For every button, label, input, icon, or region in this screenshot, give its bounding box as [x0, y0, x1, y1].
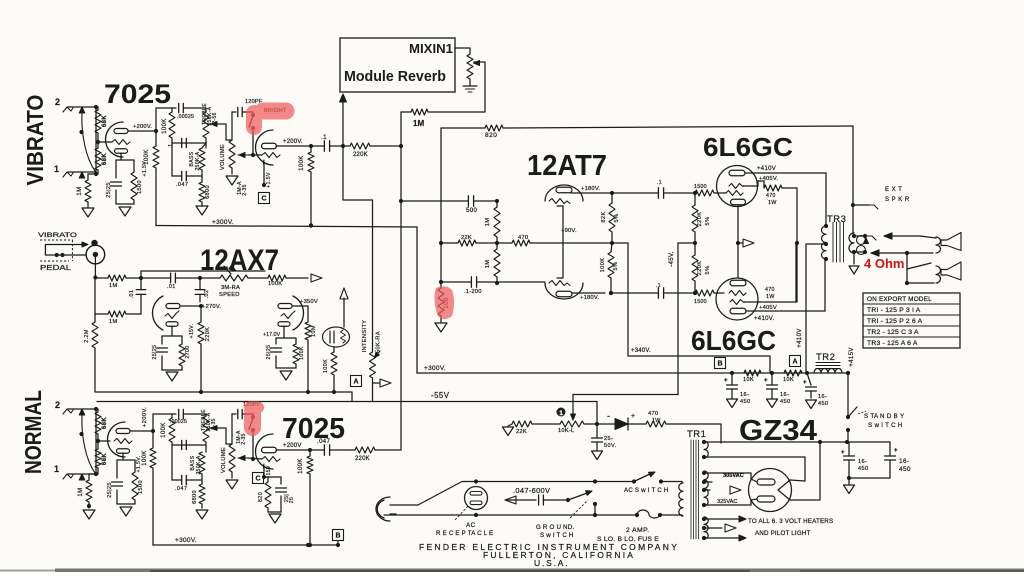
tremolo bug optocoupler	[323, 327, 350, 347]
shield curve normal inputs	[82, 415, 95, 473]
heater arrows 6.3V	[704, 518, 740, 520]
svg-text:ON EXPORT MODEL: ON EXPORT MODEL	[867, 296, 932, 303]
wire lower PI grid row	[441, 281, 467, 283]
svg-text:+300V.: +300V.	[175, 537, 197, 544]
svg-text:A: A	[353, 379, 358, 386]
svg-text:820: 820	[258, 492, 264, 502]
svg-text:100K: 100K	[144, 149, 150, 165]
svg-text:U.S.A.: U.S.A.	[534, 558, 569, 568]
wire HV bottom to plate2	[704, 499, 757, 505]
svg-text:.047-600V: .047-600V	[513, 486, 550, 495]
ground switch callout	[570, 500, 588, 518]
resistor 100K slope normal	[169, 418, 175, 442]
mid node normal	[172, 444, 192, 446]
svg-text:TRI - 125 P 2 6 A: TRI - 125 P 2 6 A	[867, 318, 923, 325]
svg-text:.047: .047	[176, 182, 188, 188]
scan artifact bottom band	[55, 569, 1024, 573]
svg-text:+415V: +415V	[849, 347, 855, 367]
wire to tone stack top	[156, 107, 176, 109]
ground volume	[226, 176, 238, 185]
volume pot 1M-A vibrato	[229, 140, 235, 168]
svg-text:AC S w I T C H: AC S w I T C H	[624, 487, 669, 494]
resistor 220K 5% upper grid leak	[692, 205, 698, 232]
ground tone stack normal	[196, 510, 208, 519]
wire upper grid into tube	[724, 192, 726, 194]
resistor 220K tremolo plate	[198, 322, 204, 344]
svg-text:A: A	[792, 359, 797, 366]
svg-text:SPEED: SPEED	[219, 292, 240, 298]
svg-text:AC: AC	[466, 522, 476, 529]
svg-text:470: 470	[766, 193, 776, 199]
triode V1B 7025 vibrato second stage	[256, 130, 274, 165]
svg-text:100K: 100K	[162, 118, 168, 134]
wiper treble to volume	[210, 123, 226, 125]
svg-text:25: 25	[289, 497, 295, 504]
svg-text:450: 450	[858, 466, 869, 472]
svg-text:7025: 7025	[282, 413, 345, 445]
TR1 6.3V winding	[704, 517, 708, 539]
capacitor 16-450 at B	[727, 384, 738, 386]
ground 100 NFB	[435, 323, 447, 332]
resistor 100K slope	[169, 112, 175, 138]
boxed B designator normal	[333, 530, 344, 541]
svg-text:+180V.: +180V.	[580, 295, 599, 301]
svg-text:1M: 1M	[485, 218, 491, 227]
highlight bright switch normal	[244, 402, 264, 437]
triode 7025 normal second stage	[256, 434, 274, 469]
svg-text:1: 1	[54, 164, 59, 174]
svg-text:TR2 - 125 C 3 A: TR2 - 125 C 3 A	[867, 329, 919, 336]
svg-text:1M: 1M	[413, 119, 424, 128]
svg-text:+405V: +405V	[759, 305, 777, 311]
arrow intensity to A node	[373, 382, 380, 384]
wire filament bottom to B+	[790, 442, 820, 500]
plate B +350V	[292, 305, 300, 307]
svg-text:6800: 6800	[192, 490, 198, 504]
arrow bug to signal	[343, 298, 345, 327]
node plate V1A vertical	[155, 108, 157, 131]
resistor 6800 mid	[201, 176, 203, 182]
wire upper link	[141, 270, 265, 272]
svg-text:1500: 1500	[138, 480, 144, 494]
GZ34 plate 2	[757, 496, 775, 502]
capacitor 16-450 mid	[767, 384, 778, 386]
svg-text:16-: 16-	[818, 394, 827, 400]
svg-text:+300V.: +300V.	[212, 219, 234, 226]
resistor 220K 5% lower grid leak	[692, 255, 698, 281]
resistor 100 NFB highlighted	[440, 243, 442, 282]
svg-text:500: 500	[466, 207, 477, 214]
TR3 center tap +410V wire	[806, 243, 826, 245]
svg-text:AND PILOT LIGHT: AND PILOT LIGHT	[755, 530, 811, 537]
svg-text:+: +	[841, 450, 845, 456]
tone stack normal top wire	[153, 413, 176, 415]
wire NFB vertical to 820	[440, 128, 442, 243]
tube 6L6GC lower	[716, 278, 758, 320]
wire PI tail to +340V feed	[563, 242, 612, 244]
ground speaker jack	[853, 252, 855, 264]
svg-text:PEDAL: PEDAL	[40, 263, 71, 272]
svg-text:S w I T C H: S w I T C H	[540, 532, 574, 539]
svg-text:1M: 1M	[485, 260, 491, 269]
treble pot normal	[203, 416, 209, 442]
svg-text:5%: 5%	[613, 262, 619, 271]
resistor 68K grid stopper upper	[95, 110, 101, 133]
AC plug	[376, 497, 390, 521]
svg-text:.1: .1	[656, 283, 661, 289]
wire top rail NFB/ext speaker	[441, 127, 485, 129]
svg-text:305VAC: 305VAC	[723, 473, 744, 479]
svg-text:VOLUME: VOLUME	[220, 144, 226, 170]
svg-text:.1: .1	[168, 144, 174, 149]
svg-text:C: C	[255, 476, 260, 483]
svg-text:+90V.: +90V.	[561, 228, 577, 234]
pedal wire loop	[45, 245, 83, 256]
bass pot normal	[199, 452, 205, 474]
cathode network V1A 1500 + 25/25	[120, 153, 122, 160]
plate wire V1A to node	[128, 130, 156, 132]
svg-text:2: 2	[55, 97, 60, 107]
svg-text:4 Ohm: 4 Ohm	[864, 256, 904, 271]
triode 12AX7 B	[293, 296, 304, 330]
svg-text:1M: 1M	[109, 319, 118, 325]
ground switch lever	[568, 492, 590, 500]
wire input bus vibrato	[95, 107, 97, 174]
svg-text:+200V.: +200V.	[142, 407, 148, 427]
svg-text:S TA N D B Y: S TA N D B Y	[864, 413, 904, 420]
svg-text:1M: 1M	[109, 283, 118, 289]
capacitor .00025 normal	[178, 409, 180, 418]
speaker feedback wire	[884, 235, 920, 237]
plate wire upper 6L6 +410V	[745, 172, 826, 174]
resistor 1500 grid upper 6L6	[695, 190, 714, 196]
svg-text:+410V: +410V	[757, 166, 776, 172]
svg-text:68K: 68K	[102, 417, 108, 429]
cathode normal V2B 820 + 25/25	[263, 466, 265, 477]
svg-text:250K-A: 250K-A	[196, 455, 202, 474]
PI lower plate row	[572, 292, 605, 294]
svg-text:C: C	[261, 196, 266, 203]
svg-text:450: 450	[780, 399, 791, 405]
wire reverb send arrow into module	[342, 97, 344, 146]
svg-text:.00025: .00025	[177, 114, 194, 120]
main speaker jack	[857, 236, 866, 245]
svg-text:1: 1	[54, 464, 59, 474]
cathode A network 25/25 2700	[171, 326, 173, 336]
resistor 1M tremolo 2	[108, 311, 126, 317]
+300V rail normal	[153, 544, 338, 546]
GZ34 plate 1	[757, 479, 775, 485]
volume pot normal	[229, 444, 235, 472]
svg-text:100K: 100K	[268, 281, 282, 287]
ground 22K bias	[508, 424, 512, 426]
speaker 2	[936, 266, 941, 283]
resistor 22K bias	[512, 421, 532, 427]
wire HV top to plate1	[704, 473, 757, 482]
scan artifact bottom band	[55, 569, 1024, 573]
svg-text:.047: .047	[317, 439, 331, 445]
svg-text:.1: .1	[321, 135, 327, 141]
resistor 820 NFB	[485, 125, 503, 131]
ext speaker jack	[851, 203, 855, 207]
scan artifact bottom band	[55, 569, 1024, 573]
ground bias cap	[592, 451, 603, 460]
svg-text:100K: 100K	[298, 458, 304, 474]
svg-text:+200V: +200V	[283, 443, 302, 449]
capacitor .00025 treble	[178, 103, 180, 112]
tube 6L6GC upper	[717, 166, 758, 207]
wire pedal to oscillator	[94, 257, 96, 278]
wire to speaker 2	[906, 253, 908, 283]
capacitor .1 coupling vibrato out	[323, 141, 325, 151]
capacitor .01 series 2	[170, 273, 172, 283]
resistor 470 1W bias	[646, 421, 666, 427]
capacitor 16-450 standby 2	[885, 455, 896, 457]
svg-text:10K: 10K	[743, 377, 754, 383]
+300V rail label node	[309, 223, 313, 227]
resistor 100K plate load V1A	[153, 146, 159, 168]
svg-text:6800: 6800	[205, 185, 211, 199]
svg-text:16-: 16-	[858, 459, 867, 465]
resistor 220K mixer normal	[355, 447, 375, 453]
svg-text:1W: 1W	[766, 294, 775, 300]
capacitor 16-450 standby 1	[844, 455, 855, 457]
svg-text:B: B	[335, 533, 340, 540]
cathode bracket PI	[557, 206, 563, 278]
GZ34 filament chevron	[778, 480, 790, 500]
resistor 2.2M	[92, 322, 98, 348]
svg-text:25|25: 25|25	[107, 482, 113, 498]
capacitor .1 coupling lower	[657, 288, 659, 298]
capacitor .1-200	[470, 277, 472, 287]
cathode normal V2A	[122, 453, 124, 460]
svg-text:-: -	[607, 411, 610, 421]
capacitor .047 bass	[171, 143, 173, 176]
svg-text:7025: 7025	[104, 79, 171, 109]
svg-text:NORMAL: NORMAL	[20, 390, 46, 474]
TR1 HV winding	[704, 471, 708, 506]
capacitor .047 coupling normal out	[323, 445, 325, 455]
svg-text:100K: 100K	[299, 346, 305, 360]
AC line top	[418, 482, 476, 506]
svg-text:2-35: 2-35	[242, 184, 248, 196]
svg-text:325VAC: 325VAC	[717, 499, 737, 505]
svg-text:1M: 1M	[77, 186, 83, 195]
svg-text:+405V.: +405V.	[759, 176, 778, 182]
svg-text:-45V.: -45V.	[669, 251, 675, 267]
wire -55V bias line	[97, 401, 597, 403]
svg-text:12AT7: 12AT7	[527, 150, 607, 182]
svg-text:+410V: +410V	[797, 328, 803, 348]
svg-text:S w I T C H: S w I T C H	[868, 422, 903, 429]
resistor 470 1W screen	[764, 185, 782, 191]
resistor 100K PI tail lower	[608, 252, 614, 278]
boxed A designator tremolo	[351, 376, 362, 387]
resistor 100K plate load V1B	[308, 152, 314, 172]
resistor 100K plate load normal V2B	[307, 456, 313, 474]
svg-text:2 AMP.: 2 AMP.	[626, 527, 649, 534]
highlight 100 ohm resistor	[434, 286, 454, 319]
svg-text:.1-200: .1-200	[464, 289, 482, 295]
svg-text:+300V.: +300V.	[424, 365, 446, 372]
wiper treble to volume normal	[210, 427, 226, 429]
speaker jack tip hook	[854, 235, 865, 237]
shield curve vibrato inputs	[82, 113, 95, 171]
fuse 2A	[595, 514, 637, 516]
arrow cathode ground symbol	[738, 242, 742, 244]
resistor 82K PI plate	[609, 203, 615, 232]
svg-text:50K-RA: 50K-RA	[376, 331, 382, 353]
triode 12AT7 upper	[545, 185, 583, 201]
svg-text:100K: 100K	[142, 450, 148, 466]
bass pot 250K-A	[199, 148, 205, 170]
resistor 68K normal upper	[95, 412, 101, 434]
svg-text:MIXIN1: MIXIN1	[409, 42, 453, 56]
svg-text:470: 470	[765, 287, 775, 293]
mid node caps	[172, 142, 192, 144]
svg-text:100K: 100K	[323, 359, 329, 373]
bias pot wiper arrow	[572, 395, 574, 415]
svg-text:450: 450	[899, 466, 911, 473]
boxed B designator supply	[715, 358, 726, 369]
svg-text:2700: 2700	[185, 345, 191, 358]
svg-text:450: 450	[818, 401, 829, 407]
svg-text:VIBRATO: VIBRATO	[38, 232, 77, 239]
svg-text:1: 1	[559, 410, 563, 417]
resistor 68K grid stopper lower	[95, 148, 101, 170]
svg-text:25|25: 25|25	[152, 345, 158, 360]
TR1 primary winding	[679, 483, 683, 516]
svg-text:220K: 220K	[205, 327, 211, 341]
capacitor .02 shunt	[195, 289, 205, 291]
resistor 68K normal lower	[95, 449, 101, 468]
resistor 100K plate load normal	[150, 448, 156, 468]
PI upper plate row	[571, 192, 605, 194]
svg-text:68K: 68K	[102, 153, 108, 165]
svg-text:TR2: TR2	[816, 352, 835, 363]
svg-text:16-: 16-	[899, 458, 909, 465]
svg-text:G R O U ND.: G R O U ND.	[536, 524, 574, 531]
screen wire upper 6L6 +405V	[743, 185, 758, 187]
highlight bright switch vibrato	[246, 103, 295, 136]
wire mixer node vertical	[400, 112, 402, 146]
svg-text:1500: 1500	[694, 184, 707, 190]
svg-text:5%: 5%	[614, 214, 620, 223]
ground standby caps	[848, 478, 850, 484]
ground reverb pot	[469, 79, 471, 86]
svg-text:220K: 220K	[355, 456, 370, 462]
svg-text:+1.5V: +1.5V	[266, 172, 272, 188]
resistor 1M reverb mix	[428, 111, 485, 113]
wire PI grid row	[401, 200, 447, 202]
svg-text:+200V.: +200V.	[283, 139, 303, 145]
svg-text:10K-L: 10K-L	[558, 428, 575, 434]
boxed A designator supply	[790, 356, 801, 367]
svg-text:TR3 - 125 A 6 A: TR3 - 125 A 6 A	[867, 340, 918, 347]
svg-text:10M: 10M	[311, 325, 317, 337]
wire grid to tube V1A	[98, 141, 108, 143]
resistor 6800 normal	[201, 480, 203, 484]
svg-text:E X T: E X T	[885, 187, 902, 193]
svg-text:5%: 5%	[705, 217, 711, 226]
svg-text:+200V.: +200V.	[133, 124, 152, 130]
svg-text:VOLUME: VOLUME	[221, 447, 227, 473]
svg-text:+340V.: +340V.	[631, 348, 651, 354]
triode 12AT7 lower	[545, 283, 583, 299]
svg-text:+410V.: +410V.	[754, 316, 774, 322]
potentiometer reverb return level	[467, 54, 473, 79]
svg-text:6L6GC: 6L6GC	[703, 132, 793, 162]
svg-text:2-35: 2-35	[241, 433, 247, 445]
TR3 secondary winding	[849, 233, 854, 253]
+415V wire	[847, 373, 849, 417]
resistor 1M PI grid	[494, 207, 500, 237]
wire filter caps line	[847, 441, 890, 443]
plate wire normal V2B +200V	[276, 449, 310, 451]
bright switch	[252, 112, 254, 114]
capacitor .047 normal	[171, 442, 173, 480]
bias pot 10K-L	[560, 421, 584, 427]
ground input 1M	[82, 208, 94, 217]
svg-text:5%: 5%	[705, 266, 711, 275]
resistor 1500 grid lower 6L6	[695, 290, 714, 296]
tremolo ground rail	[95, 391, 352, 393]
svg-text:10K: 10K	[783, 377, 794, 383]
svg-text:12AX7: 12AX7	[200, 244, 279, 277]
svg-text:+: +	[803, 380, 807, 386]
svg-text:100K: 100K	[299, 155, 305, 171]
svg-text:250K-A: 250K-A	[195, 151, 201, 170]
plate wire normal V2A	[130, 430, 153, 432]
svg-text:Module Reverb: Module Reverb	[344, 68, 446, 85]
resistor 220K mixer vibrato	[350, 143, 370, 149]
svg-text:22K: 22K	[516, 429, 527, 435]
ground normal 1M	[83, 510, 95, 519]
svg-text:25-: 25-	[604, 436, 613, 442]
svg-text:TRI - 125 P 3 I A: TRI - 125 P 3 I A	[867, 307, 921, 314]
svg-text:450: 450	[740, 399, 751, 405]
arrow tremolo output	[311, 274, 322, 282]
wire vibrato to tremolo bug	[342, 146, 344, 200]
svg-text:+: +	[724, 378, 728, 384]
speaker return wire	[854, 251, 865, 253]
svg-text:+270V.: +270V.	[202, 304, 221, 310]
resistor 10K filter 1	[744, 370, 761, 376]
wire input bus normal	[95, 409, 97, 474]
svg-text:470: 470	[648, 411, 658, 417]
wire -45V bias feed	[678, 242, 695, 244]
svg-text:R E C E P TA C L E: R E C E P TA C L E	[436, 530, 493, 537]
svg-text:50V.: 50V.	[604, 443, 617, 449]
resistor 1M PI grid lower	[494, 249, 500, 277]
svg-text:+: +	[631, 413, 636, 420]
svg-text:16-: 16-	[780, 392, 789, 398]
svg-text:-55V: -55V	[431, 391, 450, 400]
AC line bottom	[384, 514, 476, 516]
speaker 1	[936, 237, 941, 253]
svg-text:2.2M: 2.2M	[84, 329, 90, 343]
wire reverb return from MIXIN1	[455, 48, 470, 54]
resistor 1M input load	[85, 180, 91, 202]
treble pot 250K-A	[203, 112, 209, 138]
wire 5V tap to B+ line	[704, 441, 820, 443]
cathode wire upper 6L6	[737, 205, 739, 243]
svg-text:820: 820	[485, 132, 497, 139]
svg-text:25|25: 25|25	[266, 345, 272, 360]
svg-text:68K: 68K	[102, 115, 108, 127]
svg-text:+17.0V: +17.0V	[263, 332, 281, 338]
svg-text:25|25: 25|25	[106, 182, 112, 198]
